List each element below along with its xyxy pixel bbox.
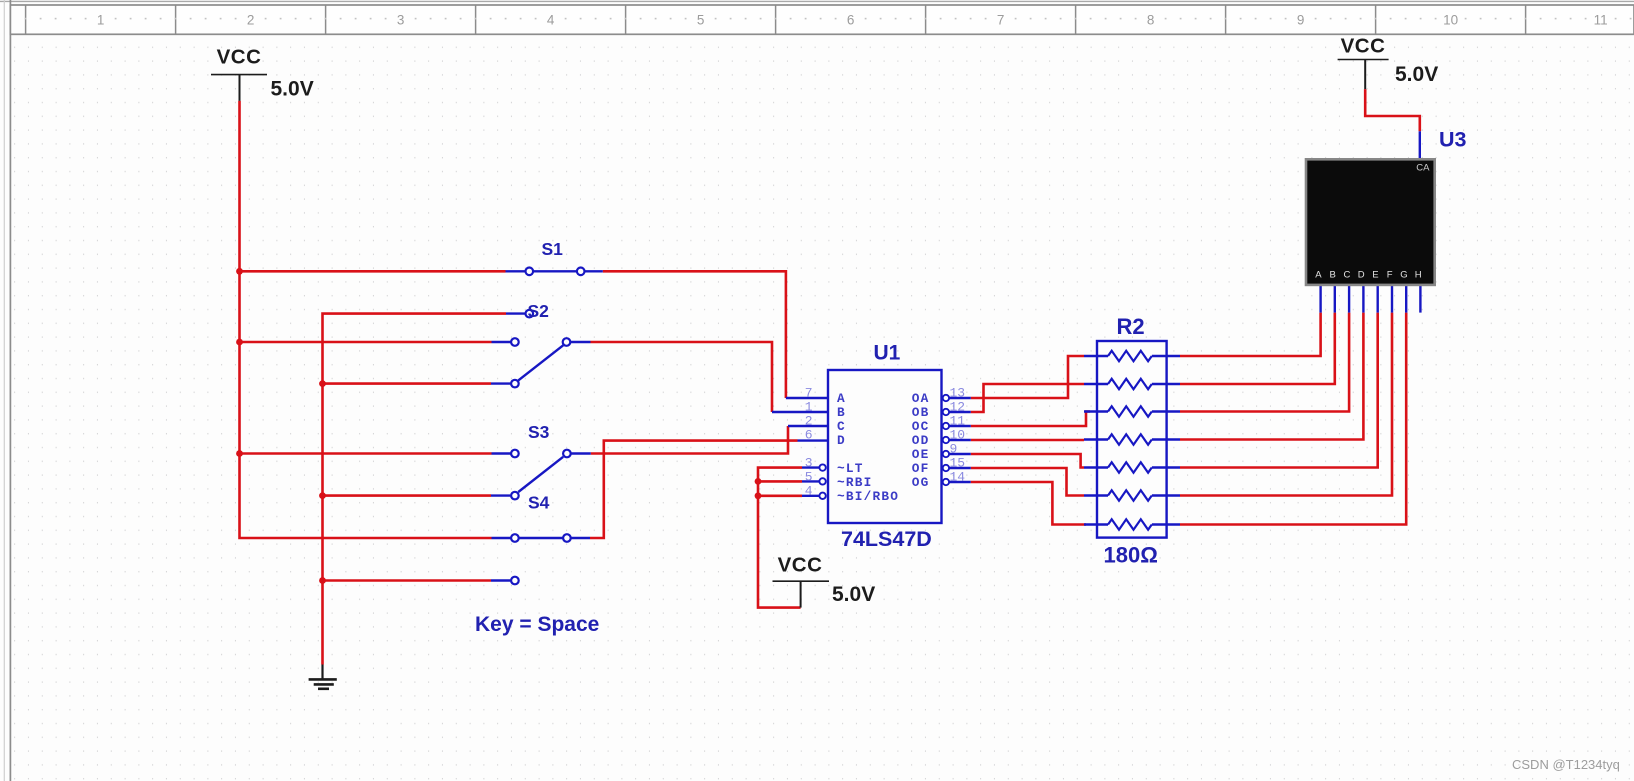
svg-text:CSDN @T1234tyq: CSDN @T1234tyq xyxy=(1512,757,1620,772)
svg-text:5.0V: 5.0V xyxy=(1395,63,1438,86)
svg-text:10: 10 xyxy=(1443,13,1458,28)
svg-text:6: 6 xyxy=(805,428,813,443)
svg-text:S3: S3 xyxy=(528,422,550,442)
svg-text:S2: S2 xyxy=(528,301,550,321)
svg-text:OG: OG xyxy=(912,475,930,490)
svg-text:8: 8 xyxy=(1147,13,1155,28)
svg-text:~BI/RBO: ~BI/RBO xyxy=(837,489,899,504)
svg-text:E: E xyxy=(1372,270,1378,281)
svg-text:C: C xyxy=(837,419,846,434)
svg-text:F: F xyxy=(1387,270,1393,281)
svg-text:74LS47D: 74LS47D xyxy=(841,527,932,551)
svg-text:15: 15 xyxy=(950,456,966,471)
svg-text:11: 11 xyxy=(1594,13,1608,28)
svg-text:1: 1 xyxy=(97,13,105,28)
svg-text:7: 7 xyxy=(805,386,813,401)
svg-text:S4: S4 xyxy=(528,493,550,513)
svg-text:180Ω: 180Ω xyxy=(1104,543,1158,568)
svg-text:~LT: ~LT xyxy=(837,461,864,476)
svg-text:VCC: VCC xyxy=(217,46,262,69)
svg-text:12: 12 xyxy=(950,400,966,415)
svg-text:1: 1 xyxy=(805,400,813,415)
svg-text:VCC: VCC xyxy=(1341,35,1386,58)
svg-text:A: A xyxy=(1315,270,1322,281)
svg-text:B: B xyxy=(1330,270,1336,281)
svg-text:Key = Space: Key = Space xyxy=(475,613,599,636)
svg-text:OB: OB xyxy=(912,405,930,420)
svg-text:14: 14 xyxy=(950,470,966,485)
svg-text:5.0V: 5.0V xyxy=(832,583,875,606)
svg-text:4: 4 xyxy=(805,484,813,499)
svg-text:2: 2 xyxy=(805,414,813,429)
svg-text:B: B xyxy=(837,405,846,420)
svg-text:OF: OF xyxy=(912,461,930,476)
svg-text:OD: OD xyxy=(912,433,930,448)
svg-text:5.0V: 5.0V xyxy=(271,78,314,101)
svg-text:5: 5 xyxy=(805,470,813,485)
svg-text:OC: OC xyxy=(912,419,930,434)
svg-text:OE: OE xyxy=(912,447,930,462)
svg-text:D: D xyxy=(1358,270,1365,281)
svg-text:D: D xyxy=(837,433,846,448)
svg-text:~RBI: ~RBI xyxy=(837,475,873,490)
svg-text:VCC: VCC xyxy=(778,554,823,577)
svg-text:H: H xyxy=(1415,270,1422,281)
svg-text:R2: R2 xyxy=(1117,314,1145,339)
svg-text:9: 9 xyxy=(1297,13,1305,28)
svg-text:A: A xyxy=(837,391,846,406)
svg-text:7: 7 xyxy=(997,13,1005,28)
svg-text:CA: CA xyxy=(1416,163,1430,174)
svg-text:2: 2 xyxy=(247,13,255,28)
svg-text:U1: U1 xyxy=(874,342,901,365)
svg-text:U3: U3 xyxy=(1439,128,1467,152)
svg-text:C: C xyxy=(1343,270,1350,281)
svg-text:S1: S1 xyxy=(542,239,564,259)
svg-text:OA: OA xyxy=(912,391,930,406)
svg-text:10: 10 xyxy=(950,428,966,443)
svg-text:13: 13 xyxy=(950,386,966,401)
svg-text:11: 11 xyxy=(950,414,966,429)
svg-text:3: 3 xyxy=(397,13,405,28)
svg-text:5: 5 xyxy=(697,13,705,28)
svg-text:G: G xyxy=(1400,270,1407,281)
svg-text:9: 9 xyxy=(950,442,958,457)
svg-text:4: 4 xyxy=(547,13,555,28)
svg-text:6: 6 xyxy=(847,13,855,28)
svg-text:3: 3 xyxy=(805,456,813,471)
